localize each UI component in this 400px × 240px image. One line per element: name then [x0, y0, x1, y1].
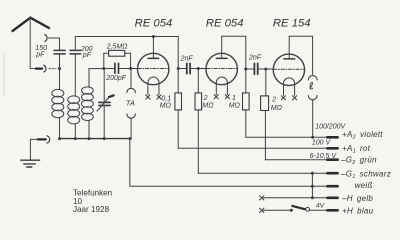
wire -H line: [264, 196, 338, 199]
resistor R1 2.5M: [104, 50, 131, 68]
svg-text:2nF: 2nF: [248, 55, 262, 62]
jack TA lower socket: [127, 114, 136, 139]
label RE 054 V2: [206, 17, 244, 29]
antenna socket lower J2: [44, 65, 56, 72]
tube V3 anode: [284, 36, 295, 59]
tube V2 filament pins: [214, 95, 229, 99]
svg-text:2nF: 2nF: [180, 55, 194, 62]
antenna: [13, 18, 50, 67]
wire top rail down to R2: [177, 37, 179, 93]
tube V3 filament: [284, 78, 295, 96]
resistor R3 2M: [195, 69, 202, 174]
svg-text:2,5MΩ: 2,5MΩ: [106, 43, 129, 50]
svg-text:Jaar 1928: Jaar 1928: [73, 205, 109, 214]
ground socket: [47, 136, 50, 143]
capacitor C1 150pF: [54, 50, 65, 54]
svg-text:0,1: 0,1: [161, 96, 171, 103]
grid wire to V3: [266, 68, 274, 70]
label C2 200pF: [80, 46, 93, 59]
ground bus wire: [58, 137, 130, 140]
coil L3: [82, 69, 94, 139]
pin x +H: [260, 208, 264, 212]
label weiss: [355, 181, 373, 190]
svg-text:RE 154: RE 154: [273, 17, 311, 29]
wire +H line right: [310, 209, 338, 211]
node grid2 junction: [197, 67, 200, 70]
node B junction: [102, 67, 105, 70]
ground pin: [30, 138, 45, 140]
wire weiss line: [130, 139, 338, 188]
node anode2 junction: [244, 68, 247, 71]
label +A1 rot: [342, 144, 371, 155]
tube V2 grid: [206, 68, 237, 70]
wire L3 top to node B: [89, 68, 104, 70]
wire V1 anode top rail: [75, 35, 178, 38]
label -G1 schwarz: [340, 169, 391, 180]
wire +A2 line: [246, 136, 338, 139]
label R5 2 M: [271, 96, 283, 112]
svg-text:2: 2: [203, 95, 208, 102]
svg-text:RE 054: RE 054: [135, 18, 173, 30]
svg-text:MΩ: MΩ: [271, 105, 283, 112]
capacitor C5 2nF: [178, 63, 198, 73]
label C1 150pF: [35, 45, 47, 59]
svg-text:2: 2: [271, 96, 276, 103]
label C6 2nF: [248, 55, 262, 62]
jack L lower socket: [308, 95, 317, 137]
svg-text:+H blau: +H blau: [342, 207, 374, 216]
svg-text:+A1 rot: +A1 rot: [342, 144, 371, 155]
label 6-10,5 V: [310, 153, 338, 160]
coil L2: [68, 96, 80, 139]
wire J1 to C1: [48, 38, 59, 50]
node grid3 junction: [264, 68, 267, 71]
variable capacitor C4 tuning: [97, 69, 114, 139]
tube V3 grid: [274, 68, 305, 70]
wire +H line left: [264, 209, 293, 212]
capacitor C6 2nF: [246, 63, 266, 74]
svg-text:6-10,5 V: 6-10,5 V: [310, 153, 338, 160]
resistor R2 0.1M: [175, 93, 182, 148]
svg-text:4V: 4V: [316, 202, 325, 209]
label 100/200V: [315, 124, 346, 131]
node C junction: [129, 67, 132, 70]
svg-text:100 V: 100 V: [312, 139, 332, 146]
label TA: [126, 98, 135, 107]
node anode1 junction: [177, 67, 180, 70]
tube V1 filament: [148, 77, 159, 95]
label C3 200pF: [105, 75, 127, 82]
label RE 054 V1: [135, 18, 173, 30]
label RE 154 V3: [273, 17, 311, 29]
jack L upper socket: [308, 76, 317, 80]
svg-text:MΩ: MΩ: [229, 102, 241, 109]
capacitor C2 200pF: [70, 37, 81, 97]
wire V2 anode loop: [222, 36, 246, 93]
caption Telefunken 10 Jaar 1928: [73, 189, 112, 215]
antenna socket upper J1: [45, 35, 47, 42]
resistor R5 2M: [261, 69, 269, 160]
pin x -H: [260, 196, 264, 200]
svg-text:1: 1: [232, 95, 236, 102]
tube V3 filament pins: [281, 96, 296, 100]
tube V2 RE054 envelope: [206, 53, 237, 84]
label L: [310, 82, 313, 89]
ground symbol: [21, 139, 40, 167]
grid wire to V2: [198, 68, 206, 70]
tube V3 RE154 envelope: [273, 54, 304, 85]
bus schwarz weiss gelb: [311, 173, 313, 198]
svg-text:weiß: weiß: [355, 181, 373, 190]
tube V2 filament: [216, 77, 227, 95]
tube V1 anode: [148, 37, 159, 59]
tube V1 grid: [138, 68, 169, 70]
wire -G2 line: [265, 159, 337, 161]
capacitor C3 200pF grid: [104, 63, 131, 73]
svg-text:pF: pF: [35, 51, 45, 58]
label R4 1 M: [229, 95, 241, 109]
label R3 2 M: [202, 95, 214, 109]
svg-text:200pF: 200pF: [105, 75, 127, 82]
wire C1 to node A: [59, 55, 61, 69]
svg-text:–H gelb: –H gelb: [341, 194, 373, 203]
svg-text:pF: pF: [82, 52, 92, 59]
label -H gelb: [341, 194, 373, 203]
switch S1: [292, 206, 309, 211]
label -G2 gruen: [340, 156, 377, 167]
paper fold line left edge: [3, 53, 5, 96]
label +A2 violett: [342, 130, 383, 141]
grid wire node C to V1: [131, 68, 138, 70]
svg-text:RE 054: RE 054: [206, 17, 244, 29]
coil L1: [52, 69, 64, 139]
jack TA upper socket: [127, 69, 136, 93]
wire +A1 line: [178, 147, 337, 149]
wire V3 anode loop: [289, 36, 312, 74]
tube V2 anode: [216, 36, 227, 58]
node A junction: [58, 67, 61, 70]
label C5 2nF: [180, 55, 194, 62]
node bus TA junction: [129, 137, 132, 140]
antenna pin lower: [30, 67, 42, 68]
tube V1 filament pins: [146, 95, 161, 99]
label +H blau: [342, 207, 374, 216]
label 4V: [316, 202, 325, 209]
label R2 0,1 M: [160, 96, 172, 110]
label R1 2,5M: [106, 43, 129, 50]
wire -G1 line: [198, 172, 337, 175]
tube V1 RE054 envelope: [138, 53, 169, 84]
svg-text:TA: TA: [126, 98, 135, 107]
label 100 V: [312, 139, 332, 146]
resistor R4 1M: [243, 93, 250, 137]
svg-text:MΩ: MΩ: [160, 103, 172, 110]
svg-text:MΩ: MΩ: [202, 102, 214, 109]
